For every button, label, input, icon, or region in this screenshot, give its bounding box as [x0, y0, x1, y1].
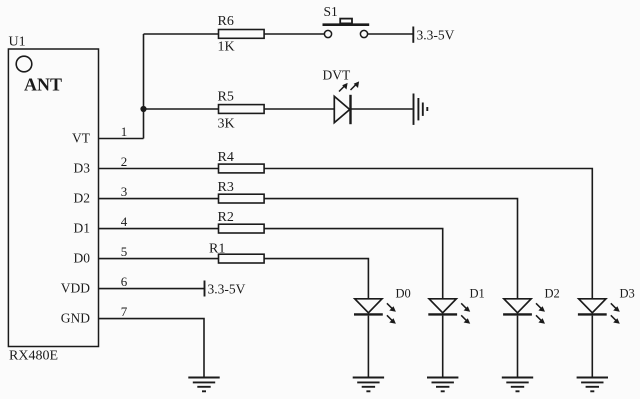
wire: pin 2 D3 row (left of R4)	[99, 168, 219, 170]
ground (rotated earth, right of DVT)	[414, 94, 428, 125]
LED D2	[503, 299, 545, 324]
wire: pin 1 VT stub	[99, 138, 144, 140]
wire: pin 4 D1 row (left of R2)	[99, 228, 219, 230]
LED D1	[428, 299, 470, 324]
LED DVT (right-pointing diode with emission arrows)	[334, 81, 359, 124]
resistor R3	[219, 194, 265, 203]
wire: VT vertical riser	[143, 34, 145, 139]
svg-text:4: 4	[121, 214, 128, 229]
3.3-5V supply terminal bar (VDD)	[204, 281, 206, 297]
svg-text:2: 2	[121, 154, 128, 169]
svg-text:R2: R2	[218, 210, 234, 225]
junction node on VT riser	[140, 106, 146, 112]
wire: R3 to LED D2 (right + drop)	[264, 199, 517, 299]
wire: LED D1 to ground	[442, 316, 444, 378]
resistor R5	[219, 105, 265, 114]
svg-text:DVT: DVT	[323, 68, 351, 83]
wire: LED D2 to ground	[517, 316, 519, 378]
LED D0	[354, 299, 396, 324]
svg-text:7: 7	[121, 304, 128, 319]
ground (below LED D0)	[353, 378, 384, 392]
svg-text:D2: D2	[74, 191, 91, 206]
svg-text:D2: D2	[545, 287, 560, 301]
wire: R5 to LED DVT	[264, 108, 334, 110]
svg-text:RX480E: RX480E	[9, 349, 58, 364]
wire: R2 to LED D1 (right + drop)	[264, 229, 443, 299]
svg-text:1: 1	[121, 124, 128, 139]
svg-text:6: 6	[121, 274, 128, 289]
svg-text:1K: 1K	[218, 40, 235, 55]
wire: riser to R6	[144, 33, 219, 35]
svg-text:R5: R5	[218, 90, 234, 105]
resistor R2	[219, 224, 265, 233]
svg-text:R3: R3	[218, 180, 234, 195]
resistor R1	[219, 254, 265, 263]
svg-text:5: 5	[121, 244, 128, 259]
svg-text:3.3-5V: 3.3-5V	[208, 282, 246, 297]
wire: pin 6 VDD stub	[99, 288, 205, 290]
ground (below LED D1)	[427, 378, 458, 392]
3.3-5V supply terminal bar (top)	[412, 27, 414, 43]
svg-text:VDD: VDD	[61, 281, 90, 296]
wire: pin 7 GND stub + drop	[99, 319, 205, 378]
ANT terminal circle	[16, 56, 32, 72]
wire: R4 to LED D3 (right + drop)	[264, 169, 592, 299]
wire: R1 to LED D0 (right + drop)	[264, 259, 368, 299]
svg-text:ANT: ANT	[24, 75, 62, 95]
svg-text:R4: R4	[218, 150, 234, 165]
wire: pin 5 D0 row (left of R1)	[99, 258, 219, 260]
svg-text:R6: R6	[218, 14, 234, 29]
wire: R6 to S1	[264, 33, 324, 35]
ground (below LED D3)	[577, 378, 608, 392]
svg-text:D3: D3	[620, 287, 635, 301]
svg-text:S1: S1	[324, 4, 338, 19]
svg-text:D3: D3	[74, 161, 91, 176]
wire: S1 to supply terminal	[368, 33, 413, 35]
svg-text:D1: D1	[74, 221, 91, 236]
resistor R6	[219, 30, 265, 39]
svg-text:VT: VT	[72, 131, 91, 146]
svg-text:R1: R1	[209, 242, 225, 257]
LED D3	[578, 299, 620, 324]
wire: pin 3 D2 row (left of R3)	[99, 198, 219, 200]
wire: LED D0 to ground	[367, 316, 369, 378]
svg-text:3: 3	[121, 184, 128, 199]
svg-text:D1: D1	[470, 287, 485, 301]
wire: junction to R5	[144, 108, 219, 110]
IC U1 body (RX480E receiver)	[8, 49, 98, 347]
svg-text:D0: D0	[74, 251, 91, 266]
resistor R4	[219, 164, 265, 173]
svg-text:3K: 3K	[218, 117, 235, 132]
svg-text:GND: GND	[61, 311, 90, 326]
wire: LED D3 to ground	[591, 316, 593, 378]
ground (below LED D2)	[502, 378, 533, 392]
svg-text:3.3-5V: 3.3-5V	[417, 28, 455, 43]
wire: DVT to side ground	[351, 108, 413, 110]
switch S1 (pushbutton)	[323, 19, 370, 38]
ground (below GND pin)	[188, 378, 219, 392]
svg-text:U1: U1	[9, 35, 26, 50]
svg-text:D0: D0	[396, 287, 411, 301]
